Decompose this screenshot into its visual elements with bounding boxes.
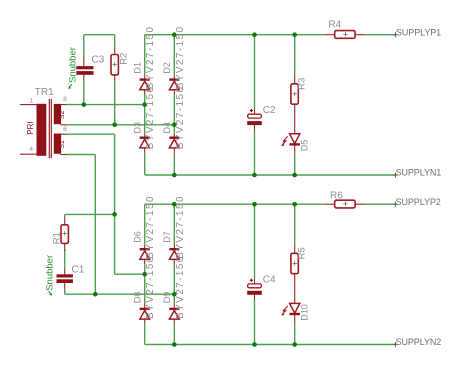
diode D2 BYV27-150 <box>169 80 179 90</box>
svg-text:D7: D7 <box>162 231 172 243</box>
lead D4 bottom <box>173 148 175 154</box>
svg-text:SUPPLYN2: SUPPLYN2 <box>396 337 442 347</box>
lead C2 bottom <box>254 125 256 130</box>
lead D1 top <box>144 75 146 79</box>
svg-text:D3: D3 <box>132 122 142 134</box>
svg-text:BYV27-150: BYV27-150 <box>145 86 156 150</box>
svg-text:BYV27-150: BYV27-150 <box>145 26 156 90</box>
svg-text:BYV27-150: BYV27-150 <box>175 86 186 150</box>
lead R5 top <box>294 245 296 254</box>
svg-text:S1: S1 <box>59 140 66 149</box>
net label SUPPLYP2 <box>393 202 398 207</box>
resistor R3 <box>291 84 298 104</box>
lead C2 top <box>254 109 256 114</box>
lead R5 to D10 <box>294 274 296 304</box>
wire snubber node rail (C3 top to R2 top) <box>84 34 115 36</box>
lead D6 bottom <box>144 259 146 264</box>
junction D4 bottom rail <box>172 173 177 178</box>
svg-text:R5: R5 <box>297 247 308 259</box>
resistor R2 (snubber) <box>111 55 118 75</box>
lead D2 bottom <box>173 90 175 95</box>
svg-text:+: + <box>62 228 67 238</box>
svg-text:+: + <box>112 60 117 70</box>
lead D2 top <box>173 75 175 79</box>
svg-text:D5: D5 <box>299 140 309 152</box>
svg-text:Snubber: Snubber <box>45 255 56 291</box>
svg-text:D8: D8 <box>132 292 142 304</box>
lead D7 top <box>173 245 175 249</box>
junction AC1/bridge <box>142 102 147 107</box>
lead R6 left <box>324 203 335 205</box>
lead D1 bottom <box>144 90 146 95</box>
lead D9 bottom <box>173 319 175 323</box>
wire R1/C1 snubber column <box>64 214 66 217</box>
svg-text:D10: D10 <box>300 304 310 321</box>
wire S1 bottom pin horizontal <box>66 154 95 156</box>
transformer TR1 core <box>49 99 51 158</box>
svg-text:R1: R1 <box>51 232 62 244</box>
wire S1 top vertical to AC1' node <box>114 134 116 274</box>
lead C1 top <box>64 269 66 275</box>
svg-text:BYV27-150: BYV27-150 <box>145 195 156 259</box>
lead C1 bottom <box>64 283 66 289</box>
lead D9 top <box>173 303 175 309</box>
lead R1 bottom <box>64 243 66 251</box>
svg-text:D9: D9 <box>162 292 172 304</box>
wire R3/D5 column <box>294 35 296 75</box>
lead D3 bottom <box>144 148 146 154</box>
svg-text:SUPPLYP1: SUPPLYP1 <box>396 27 441 37</box>
diode D1 BYV27-150 <box>140 80 150 90</box>
junction D7 top rail <box>172 202 177 207</box>
lead D8 bottom <box>144 319 146 323</box>
wire top rail from bridge to R4 <box>145 34 325 36</box>
junction C2 bottom rail <box>252 173 257 178</box>
wire AC2 node (pin 6 winding to bridge) <box>66 124 174 126</box>
wire S1 bottom vertical <box>94 155 96 295</box>
wire R5/D10 column <box>294 204 296 245</box>
junction AC1' bridge <box>142 272 147 277</box>
junction AC2/bridge <box>172 123 177 128</box>
resistor R5 <box>291 253 298 273</box>
wire C2 column <box>254 35 256 109</box>
wire R2 branch vertical <box>114 35 116 47</box>
svg-text:SUPPLYP2: SUPPLYP2 <box>396 197 441 207</box>
lead R4 left <box>324 34 335 36</box>
lead D4 top <box>173 133 175 137</box>
svg-text:C4: C4 <box>263 274 276 285</box>
wire C4 column <box>254 204 256 278</box>
wire SUPPLYN1 rail <box>145 174 396 176</box>
wire bridge column D6/D8 <box>144 204 146 245</box>
lead R1 top <box>64 218 66 225</box>
wire C3 branch vertical <box>83 35 85 58</box>
transformer TR1 secondary winding S1 <box>54 134 67 155</box>
diode D8 BYV27-150 <box>140 309 150 319</box>
resistor R4 <box>335 30 355 40</box>
lead D8 top <box>144 303 146 309</box>
svg-text:TR1: TR1 <box>35 87 54 98</box>
svg-text:SUPPLYN1: SUPPLYN1 <box>396 167 442 177</box>
junction D5 bottom rail <box>292 173 297 178</box>
svg-text:+: + <box>343 30 348 40</box>
junction S1 bottom / AC2' <box>93 292 98 297</box>
junction AC2' bridge <box>172 292 177 297</box>
svg-text:BYV27-150: BYV27-150 <box>145 255 156 319</box>
junction D10 bottom rail <box>292 342 297 347</box>
net label SUPPLYN1 <box>393 172 398 177</box>
junction C2 top rail <box>252 32 257 37</box>
lead D6 top <box>144 245 146 249</box>
lead R6 right <box>355 203 365 205</box>
svg-text:R3: R3 <box>297 78 308 90</box>
lead C4 top <box>254 279 256 284</box>
diode D7 BYV27-150 <box>169 249 179 259</box>
lead R3 top <box>294 75 296 84</box>
lead D7 bottom <box>173 259 175 264</box>
wire bridge column D2/D4 <box>173 35 175 76</box>
svg-text:R4: R4 <box>328 20 341 31</box>
svg-text:Snubber: Snubber <box>68 47 79 83</box>
resistor R6 <box>335 199 355 209</box>
junction C4 top rail <box>252 202 257 207</box>
diode D4 BYV27-150 <box>169 138 179 148</box>
diode D9 BYV27-150 <box>169 309 179 319</box>
junction R1 rail / S1 vertical <box>112 212 117 217</box>
wire AC1' node to bridge <box>115 273 145 275</box>
lead R2 top <box>114 47 116 55</box>
svg-text:R2: R2 <box>118 53 129 65</box>
svg-text:4: 4 <box>29 146 33 153</box>
wire AC1 node (pin 8 to bridge) <box>66 104 144 106</box>
svg-text:R6: R6 <box>330 190 343 201</box>
lead C3 bottom <box>83 74 85 80</box>
svg-text:D6: D6 <box>132 231 142 243</box>
capacitor C1 (snubber) <box>57 274 73 283</box>
wire AC2' node <box>65 293 175 295</box>
svg-text:D1: D1 <box>132 62 142 74</box>
lead R4 right <box>355 34 365 36</box>
lead R3 to D5 <box>294 104 296 134</box>
svg-text:BYV27-150: BYV27-150 <box>175 26 186 90</box>
wire R4 to SUPPLYP1 <box>365 34 396 36</box>
net label SUPPLYP1 <box>393 32 398 37</box>
wire bridge column D1/D3 <box>144 35 146 76</box>
LED D10 <box>282 303 300 315</box>
lead C3 top <box>83 58 85 67</box>
lead D3 top <box>144 133 146 137</box>
svg-text:PRI: PRI <box>26 121 35 134</box>
diode D3 BYV27-150 <box>140 138 150 148</box>
junction C4 bottom rail <box>252 342 257 347</box>
svg-text:S2: S2 <box>59 111 66 120</box>
junction R5 top rail <box>292 202 297 207</box>
resistor R1 (snubber) <box>61 225 68 244</box>
svg-text:D2: D2 <box>162 62 172 74</box>
transformer TR1 primary winding <box>20 104 46 156</box>
svg-text:6: 6 <box>63 126 67 133</box>
svg-text:8: 8 <box>63 96 67 103</box>
wire S1 top pin horizontal <box>66 133 114 135</box>
svg-text:1: 1 <box>29 97 33 104</box>
wire bridge column D7/D9 <box>173 204 175 245</box>
junction R3 top rail <box>292 32 297 37</box>
lead D10 bottom <box>294 314 296 323</box>
svg-text:D4: D4 <box>162 122 172 134</box>
net label SUPPLYN2 <box>393 342 398 347</box>
wire R1 top rail <box>65 213 115 215</box>
capacitor C2 (polarized) <box>247 109 262 125</box>
junction C3/AC1 <box>82 102 87 107</box>
junction D2 top rail <box>172 32 177 37</box>
capacitor C3 (snubber) <box>76 66 93 75</box>
capacitor C4 (polarized) <box>247 279 262 295</box>
junction R2/AC2 <box>112 123 117 128</box>
svg-text:C1: C1 <box>72 265 85 276</box>
wire R6 to SUPPLYP2 <box>365 203 396 205</box>
LED D5 <box>282 134 300 146</box>
lead C4 bottom <box>254 295 256 300</box>
wire SUPPLYN2 rail <box>145 344 396 346</box>
svg-text:BYV27-150: BYV27-150 <box>175 255 186 319</box>
svg-text:BYV27-150: BYV27-150 <box>175 195 186 259</box>
transformer TR1 secondary winding S2 <box>54 104 67 125</box>
diode D6 BYV27-150 <box>140 249 150 259</box>
lead R2 bottom <box>114 75 116 81</box>
svg-text:+: + <box>343 199 348 209</box>
junction D9 bottom rail <box>172 342 177 347</box>
svg-text:C3: C3 <box>92 55 105 66</box>
svg-text:C2: C2 <box>263 105 276 116</box>
wire supply2 rail from bridge to R6 <box>145 203 325 205</box>
lead D5 bottom <box>294 145 296 154</box>
